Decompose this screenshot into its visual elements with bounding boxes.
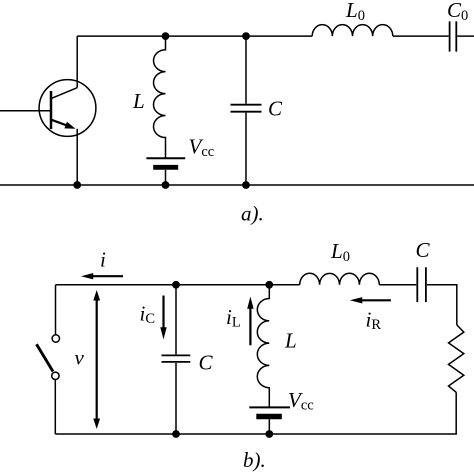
svg-text:C: C: [268, 97, 283, 121]
wire: C0 to right edge: [457, 35, 474, 37]
node: bottom rail / emitter junction: [73, 181, 81, 189]
wire: circuit a top rail from collector riser to L0: [77, 35, 312, 37]
wire: C to right corner: [427, 285, 457, 325]
svg-text:i: i: [100, 248, 106, 272]
wire: C branch stubs (circuit b): [175, 285, 177, 434]
node: bottom rail / Vcc junction: [162, 181, 170, 189]
battery Vcc (circuit a): [146, 157, 185, 159]
wire: switch to bottom rail: [54, 380, 56, 434]
wire: resistor to bottom rail: [55, 392, 456, 434]
wire: circuit b top rail left: [56, 284, 300, 286]
svg-text:iL: iL: [226, 305, 241, 331]
inductor L0 (circuit b): [300, 273, 380, 285]
svg-text:a).: a).: [241, 202, 264, 226]
wire: base lead: [0, 110, 51, 112]
inductor L0 (circuit a): [312, 25, 393, 37]
svg-text:Vcc: Vcc: [189, 135, 215, 161]
switch S terminal bottom: [52, 372, 59, 379]
wire: L0 to C (circuit b): [379, 284, 416, 286]
node: bottom rail / C junction: [242, 181, 250, 189]
svg-text:L: L: [132, 89, 145, 113]
node: b bottom rail / C junction: [172, 430, 180, 438]
battery Vcc (circuit b): [249, 406, 290, 408]
capacitor C0: [450, 21, 457, 51]
node: top rail / C junction: [242, 32, 250, 40]
switch S blade: [37, 344, 54, 371]
node: b top rail / C junction: [172, 281, 180, 289]
svg-text:iR: iR: [366, 308, 382, 334]
capacitor C (circuit b middle): [162, 355, 191, 362]
switch S terminal top: [52, 335, 59, 342]
wire: C branch stubs (circuit a): [245, 36, 247, 185]
svg-text:C: C: [416, 238, 431, 262]
wire: circuit a bottom rail: [0, 184, 474, 186]
node: b bottom rail / Vcc junction: [265, 430, 273, 438]
current arrow iL: [249, 308, 251, 345]
transistor Q1: [39, 80, 96, 137]
current arrow iR: [362, 299, 391, 301]
capacitor C (circuit a): [231, 105, 262, 112]
svg-text:L0: L0: [345, 0, 365, 24]
current arrow i: [92, 275, 123, 277]
wire: switch drop: [55, 285, 57, 335]
svg-text:b).: b).: [243, 448, 266, 472]
svg-text:L: L: [284, 329, 297, 353]
inductor L (circuit b): [257, 285, 269, 408]
wire: emitter riser: [76, 129, 78, 185]
svg-text:C0: C0: [447, 0, 468, 24]
node: top rail / L junction: [162, 32, 170, 40]
wire: Vcc to bottom rail (circuit b): [268, 419, 270, 434]
svg-text:L0: L0: [330, 239, 350, 265]
current arrow iC: [162, 296, 164, 329]
capacitor C (circuit b right): [417, 267, 426, 302]
svg-text:Vcc: Vcc: [288, 388, 314, 414]
node: b top rail / L junction: [265, 281, 273, 289]
wire: Vcc to bottom rail (circuit a): [165, 170, 167, 185]
svg-text:iC: iC: [140, 302, 156, 328]
wire: L0 to C0: [393, 35, 449, 37]
resistor R: [449, 325, 464, 392]
inductor L (circuit a): [153, 36, 165, 158]
voltage arrow v: [96, 300, 98, 420]
wire: collector riser: [76, 36, 78, 88]
svg-text:C: C: [199, 351, 214, 375]
svg-text:v: v: [75, 346, 85, 370]
